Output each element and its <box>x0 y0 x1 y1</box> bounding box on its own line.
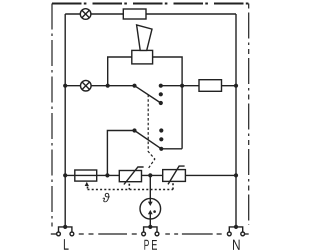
fuse F1 trip arrow <box>85 182 89 186</box>
mechanical linkage (dashed) from switches to varistor disconnect <box>148 95 155 170</box>
disconnector U1 actuator wedge <box>137 25 152 51</box>
wire: R2 to right bus <box>222 85 237 87</box>
terminal L <box>57 225 74 236</box>
enclosure outline top (dash-dot) <box>52 3 249 5</box>
node: S1 contact b <box>159 92 163 96</box>
node: junction left bus / lamp row <box>63 84 67 88</box>
wire: bottom row L to N <box>65 174 236 176</box>
enclosure outline bottom left corner dash <box>51 233 57 235</box>
enclosure outline bottom dash-dot L to PE <box>74 233 142 235</box>
switch S1 blade (upper changeover contact) <box>135 86 161 103</box>
wire: branch up to thermal disconnect device <box>108 57 132 86</box>
label: terminal PE (E) <box>152 240 157 250</box>
node: junction bottom row / spark gap branch <box>148 173 152 177</box>
wire: S1 contact to resistor R2 row <box>161 85 199 87</box>
switch S2 blade (lower changeover contact) <box>135 131 162 149</box>
enclosure outline bottom right corner dash <box>245 233 249 235</box>
wire: right bus N vertical <box>235 14 237 226</box>
node: junction bottom row / left bus <box>63 173 67 177</box>
resistor R1 (top) <box>123 9 146 19</box>
node: S1 blade tip <box>159 101 163 105</box>
node: junction R2 row / disconnect vertical <box>180 84 184 88</box>
varistor RV2 <box>163 166 186 184</box>
label: terminal PE (P) <box>144 240 148 250</box>
label: terminal L <box>64 239 69 250</box>
wire: top bus from left corner to right corner <box>65 13 236 15</box>
lamp H1 (top indicator) <box>80 9 91 20</box>
node: junction R2 row / right bus <box>234 84 238 88</box>
wire: spark gap to PE terminal <box>149 219 151 227</box>
wire: middle row lamp branch <box>65 85 134 87</box>
fuse F1 (thermal disconnect, bottom row) <box>75 170 97 181</box>
thermal sensor line (dotted) <box>88 183 174 189</box>
node: junction bottom row / right bus <box>234 173 238 177</box>
label: terminal N <box>233 240 240 250</box>
wire: lower switch feed <box>107 131 134 176</box>
node: junction bottom row / switch branch <box>105 173 109 177</box>
resistor R2 (middle) <box>199 80 222 92</box>
wire: disconnect device output to right vertical <box>153 57 183 149</box>
enclosure outline right (dash-dot) <box>248 4 250 226</box>
wire: left bus L vertical <box>64 14 66 227</box>
disconnector U1 (box) <box>132 50 153 64</box>
wire: spark gap branch down from bottom row <box>149 175 151 198</box>
node: S2 common pivot <box>132 128 136 132</box>
spark gap F2 (N-PE) <box>140 198 161 219</box>
lamp H2 (middle indicator) <box>81 80 92 91</box>
node: junction lamp row / disconnect branch <box>106 84 110 88</box>
node: S1 common pivot <box>132 84 136 88</box>
enclosure outline left (dash-dot) <box>51 4 53 227</box>
enclosure outline bottom dash-dot PE to N <box>159 233 227 235</box>
terminal N <box>227 225 244 236</box>
wire: S2 blade tip to vertical <box>161 148 182 150</box>
label: temperature theta <box>103 193 110 202</box>
terminal PE <box>142 225 159 236</box>
node: S1 contact a <box>159 84 163 88</box>
varistor RV1 <box>119 167 143 185</box>
node: S2 contact b <box>159 137 163 141</box>
node: S2 blade tip <box>159 147 163 151</box>
node: S2 contact a <box>159 128 163 132</box>
